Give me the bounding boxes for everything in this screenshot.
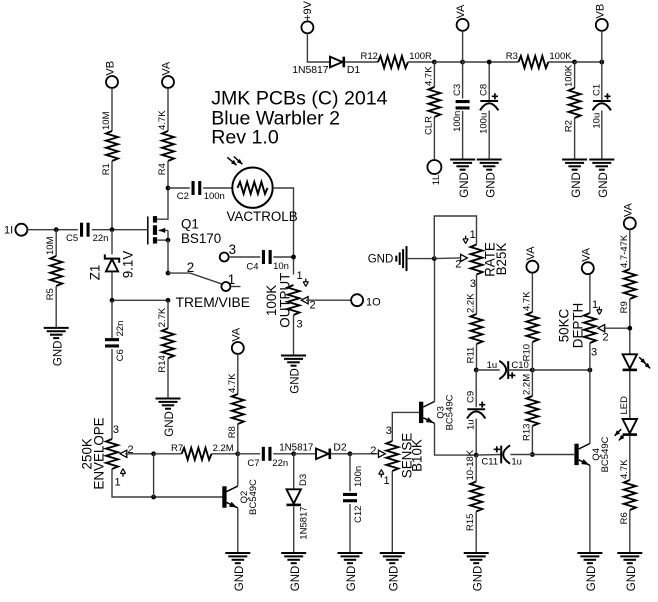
svg-text:D1: D1 bbox=[347, 65, 361, 76]
svg-text:50KC: 50KC bbox=[557, 308, 572, 342]
svg-text:C12: C12 bbox=[353, 506, 364, 523]
svg-text:3: 3 bbox=[229, 242, 236, 257]
svg-text:C6: C6 bbox=[115, 349, 126, 361]
svg-text:VA: VA bbox=[580, 247, 592, 262]
svg-text:BC549C: BC549C bbox=[600, 436, 611, 472]
svg-text:C11: C11 bbox=[481, 457, 498, 468]
svg-text:BC549C: BC549C bbox=[248, 479, 259, 515]
svg-text:VB: VB bbox=[594, 4, 606, 19]
svg-text:ENVELOPE: ENVELOPE bbox=[92, 417, 107, 489]
svg-text:VB: VB bbox=[105, 61, 117, 76]
svg-text:R13: R13 bbox=[521, 424, 532, 441]
svg-text:1u: 1u bbox=[511, 457, 522, 468]
svg-text:VA: VA bbox=[230, 327, 242, 342]
svg-text:10M: 10M bbox=[101, 111, 112, 130]
svg-text:R2: R2 bbox=[564, 120, 575, 132]
svg-text:4.7K: 4.7K bbox=[227, 373, 238, 393]
svg-text:GND: GND bbox=[368, 254, 394, 266]
svg-text:R8: R8 bbox=[227, 426, 238, 438]
svg-text:100u: 100u bbox=[479, 113, 490, 134]
svg-text:100R: 100R bbox=[409, 51, 432, 62]
svg-text:GND: GND bbox=[290, 368, 302, 394]
svg-text:2: 2 bbox=[455, 259, 461, 271]
svg-text:OUTPUT: OUTPUT bbox=[277, 273, 292, 328]
svg-text:3: 3 bbox=[591, 347, 597, 359]
svg-text:R14: R14 bbox=[157, 355, 168, 372]
svg-text:C7: C7 bbox=[247, 458, 259, 469]
svg-text:BC549C: BC549C bbox=[445, 394, 456, 430]
svg-text:9.1V: 9.1V bbox=[121, 251, 136, 279]
svg-text:1: 1 bbox=[470, 229, 476, 241]
svg-text:100K: 100K bbox=[549, 51, 572, 62]
svg-text:4.7K: 4.7K bbox=[521, 291, 532, 311]
svg-text:VACTROLB: VACTROLB bbox=[227, 209, 298, 224]
svg-text:2: 2 bbox=[310, 300, 316, 312]
svg-text:2.7K: 2.7K bbox=[157, 307, 168, 327]
svg-text:R6: R6 bbox=[619, 512, 630, 524]
svg-text:R12: R12 bbox=[361, 51, 378, 62]
svg-text:1: 1 bbox=[384, 475, 390, 487]
svg-text:3: 3 bbox=[386, 425, 392, 437]
svg-text:GND: GND bbox=[472, 566, 484, 592]
svg-text:B10K: B10K bbox=[410, 439, 425, 472]
svg-text:100n: 100n bbox=[452, 111, 463, 132]
svg-text:4.7-47K: 4.7-47K bbox=[619, 234, 630, 268]
svg-text:22n: 22n bbox=[272, 458, 288, 469]
svg-text:JMK PCBs (C) 2014: JMK PCBs (C) 2014 bbox=[211, 88, 387, 110]
svg-text:R9: R9 bbox=[619, 301, 630, 313]
svg-text:22n: 22n bbox=[115, 321, 126, 337]
svg-text:Q1: Q1 bbox=[181, 217, 199, 232]
svg-text:1O: 1O bbox=[366, 296, 381, 308]
svg-text:GND: GND bbox=[234, 566, 246, 592]
svg-text:GND: GND bbox=[586, 566, 598, 592]
svg-text:3: 3 bbox=[113, 424, 119, 436]
svg-text:VA: VA bbox=[161, 61, 173, 76]
svg-text:BS170: BS170 bbox=[181, 231, 221, 246]
svg-text:+9V: +9V bbox=[302, 0, 314, 21]
svg-text:R11: R11 bbox=[466, 347, 477, 364]
svg-text:R10: R10 bbox=[521, 344, 532, 361]
svg-text:2.2K: 2.2K bbox=[466, 293, 477, 313]
svg-text:1u: 1u bbox=[487, 360, 498, 371]
svg-text:C9: C9 bbox=[466, 391, 477, 403]
svg-text:100n: 100n bbox=[204, 191, 225, 202]
svg-text:1u: 1u bbox=[466, 419, 477, 430]
svg-text:22n: 22n bbox=[93, 233, 109, 244]
svg-text:GND: GND bbox=[626, 566, 638, 592]
svg-text:2: 2 bbox=[128, 444, 134, 456]
svg-text:Z1: Z1 bbox=[88, 265, 103, 281]
svg-text:C3: C3 bbox=[452, 84, 463, 96]
svg-text:GND: GND bbox=[389, 566, 401, 592]
svg-text:R4: R4 bbox=[157, 163, 168, 175]
svg-text:4.7K: 4.7K bbox=[619, 459, 630, 479]
svg-text:GND: GND bbox=[459, 172, 471, 198]
svg-text:GND: GND bbox=[290, 566, 302, 592]
svg-text:D3: D3 bbox=[298, 474, 309, 486]
svg-text:R15: R15 bbox=[465, 514, 476, 531]
svg-text:D2: D2 bbox=[333, 443, 347, 454]
svg-text:R3: R3 bbox=[506, 51, 518, 62]
svg-text:1N5817: 1N5817 bbox=[292, 65, 329, 76]
svg-text:DEPTH: DEPTH bbox=[571, 303, 586, 348]
svg-text:4.7K: 4.7K bbox=[423, 66, 434, 86]
svg-text:GND: GND bbox=[598, 172, 610, 198]
svg-text:2: 2 bbox=[603, 332, 609, 344]
svg-text:1L: 1L bbox=[431, 175, 442, 186]
svg-text:100n: 100n bbox=[353, 466, 364, 487]
svg-text:C2: C2 bbox=[177, 191, 189, 202]
svg-text:B25K: B25K bbox=[494, 243, 509, 276]
svg-text:1I: 1I bbox=[4, 225, 13, 237]
svg-text:C5: C5 bbox=[66, 233, 78, 244]
svg-text:1: 1 bbox=[228, 272, 235, 287]
svg-text:GND: GND bbox=[346, 566, 358, 592]
svg-text:10n: 10n bbox=[273, 261, 289, 272]
svg-text:VA: VA bbox=[622, 202, 634, 217]
svg-text:10u: 10u bbox=[591, 113, 602, 129]
svg-text:Rev 1.0: Rev 1.0 bbox=[211, 127, 279, 149]
svg-text:2.2M: 2.2M bbox=[521, 374, 532, 395]
svg-text:CLR: CLR bbox=[423, 116, 434, 135]
svg-text:VA: VA bbox=[525, 246, 537, 261]
svg-text:R5: R5 bbox=[45, 288, 56, 300]
svg-text:C8: C8 bbox=[479, 84, 490, 96]
svg-text:2: 2 bbox=[370, 445, 376, 457]
svg-text:1: 1 bbox=[115, 477, 121, 489]
svg-text:2.2M: 2.2M bbox=[213, 443, 234, 454]
svg-text:3: 3 bbox=[470, 278, 476, 290]
svg-text:GND: GND bbox=[485, 172, 497, 198]
svg-text:1: 1 bbox=[297, 270, 303, 282]
svg-text:GND: GND bbox=[571, 172, 583, 198]
svg-text:4.7K: 4.7K bbox=[157, 110, 168, 130]
svg-text:GND: GND bbox=[164, 411, 176, 437]
svg-text:R7: R7 bbox=[171, 443, 183, 454]
svg-text:1N5817: 1N5817 bbox=[279, 443, 313, 454]
svg-text:3: 3 bbox=[297, 319, 303, 331]
svg-text:10-18K: 10-18K bbox=[465, 449, 476, 480]
svg-text:LED: LED bbox=[619, 396, 630, 415]
svg-text:C4: C4 bbox=[246, 262, 258, 273]
svg-text:TREM/VIBE: TREM/VIBE bbox=[176, 295, 250, 310]
svg-text:10M: 10M bbox=[45, 236, 56, 255]
svg-text:GND: GND bbox=[52, 341, 64, 367]
svg-text:VA: VA bbox=[455, 4, 467, 19]
svg-text:C1: C1 bbox=[591, 84, 602, 96]
svg-text:R1: R1 bbox=[101, 163, 112, 175]
svg-text:1N5817: 1N5817 bbox=[299, 506, 310, 539]
svg-text:100K: 100K bbox=[564, 64, 575, 87]
